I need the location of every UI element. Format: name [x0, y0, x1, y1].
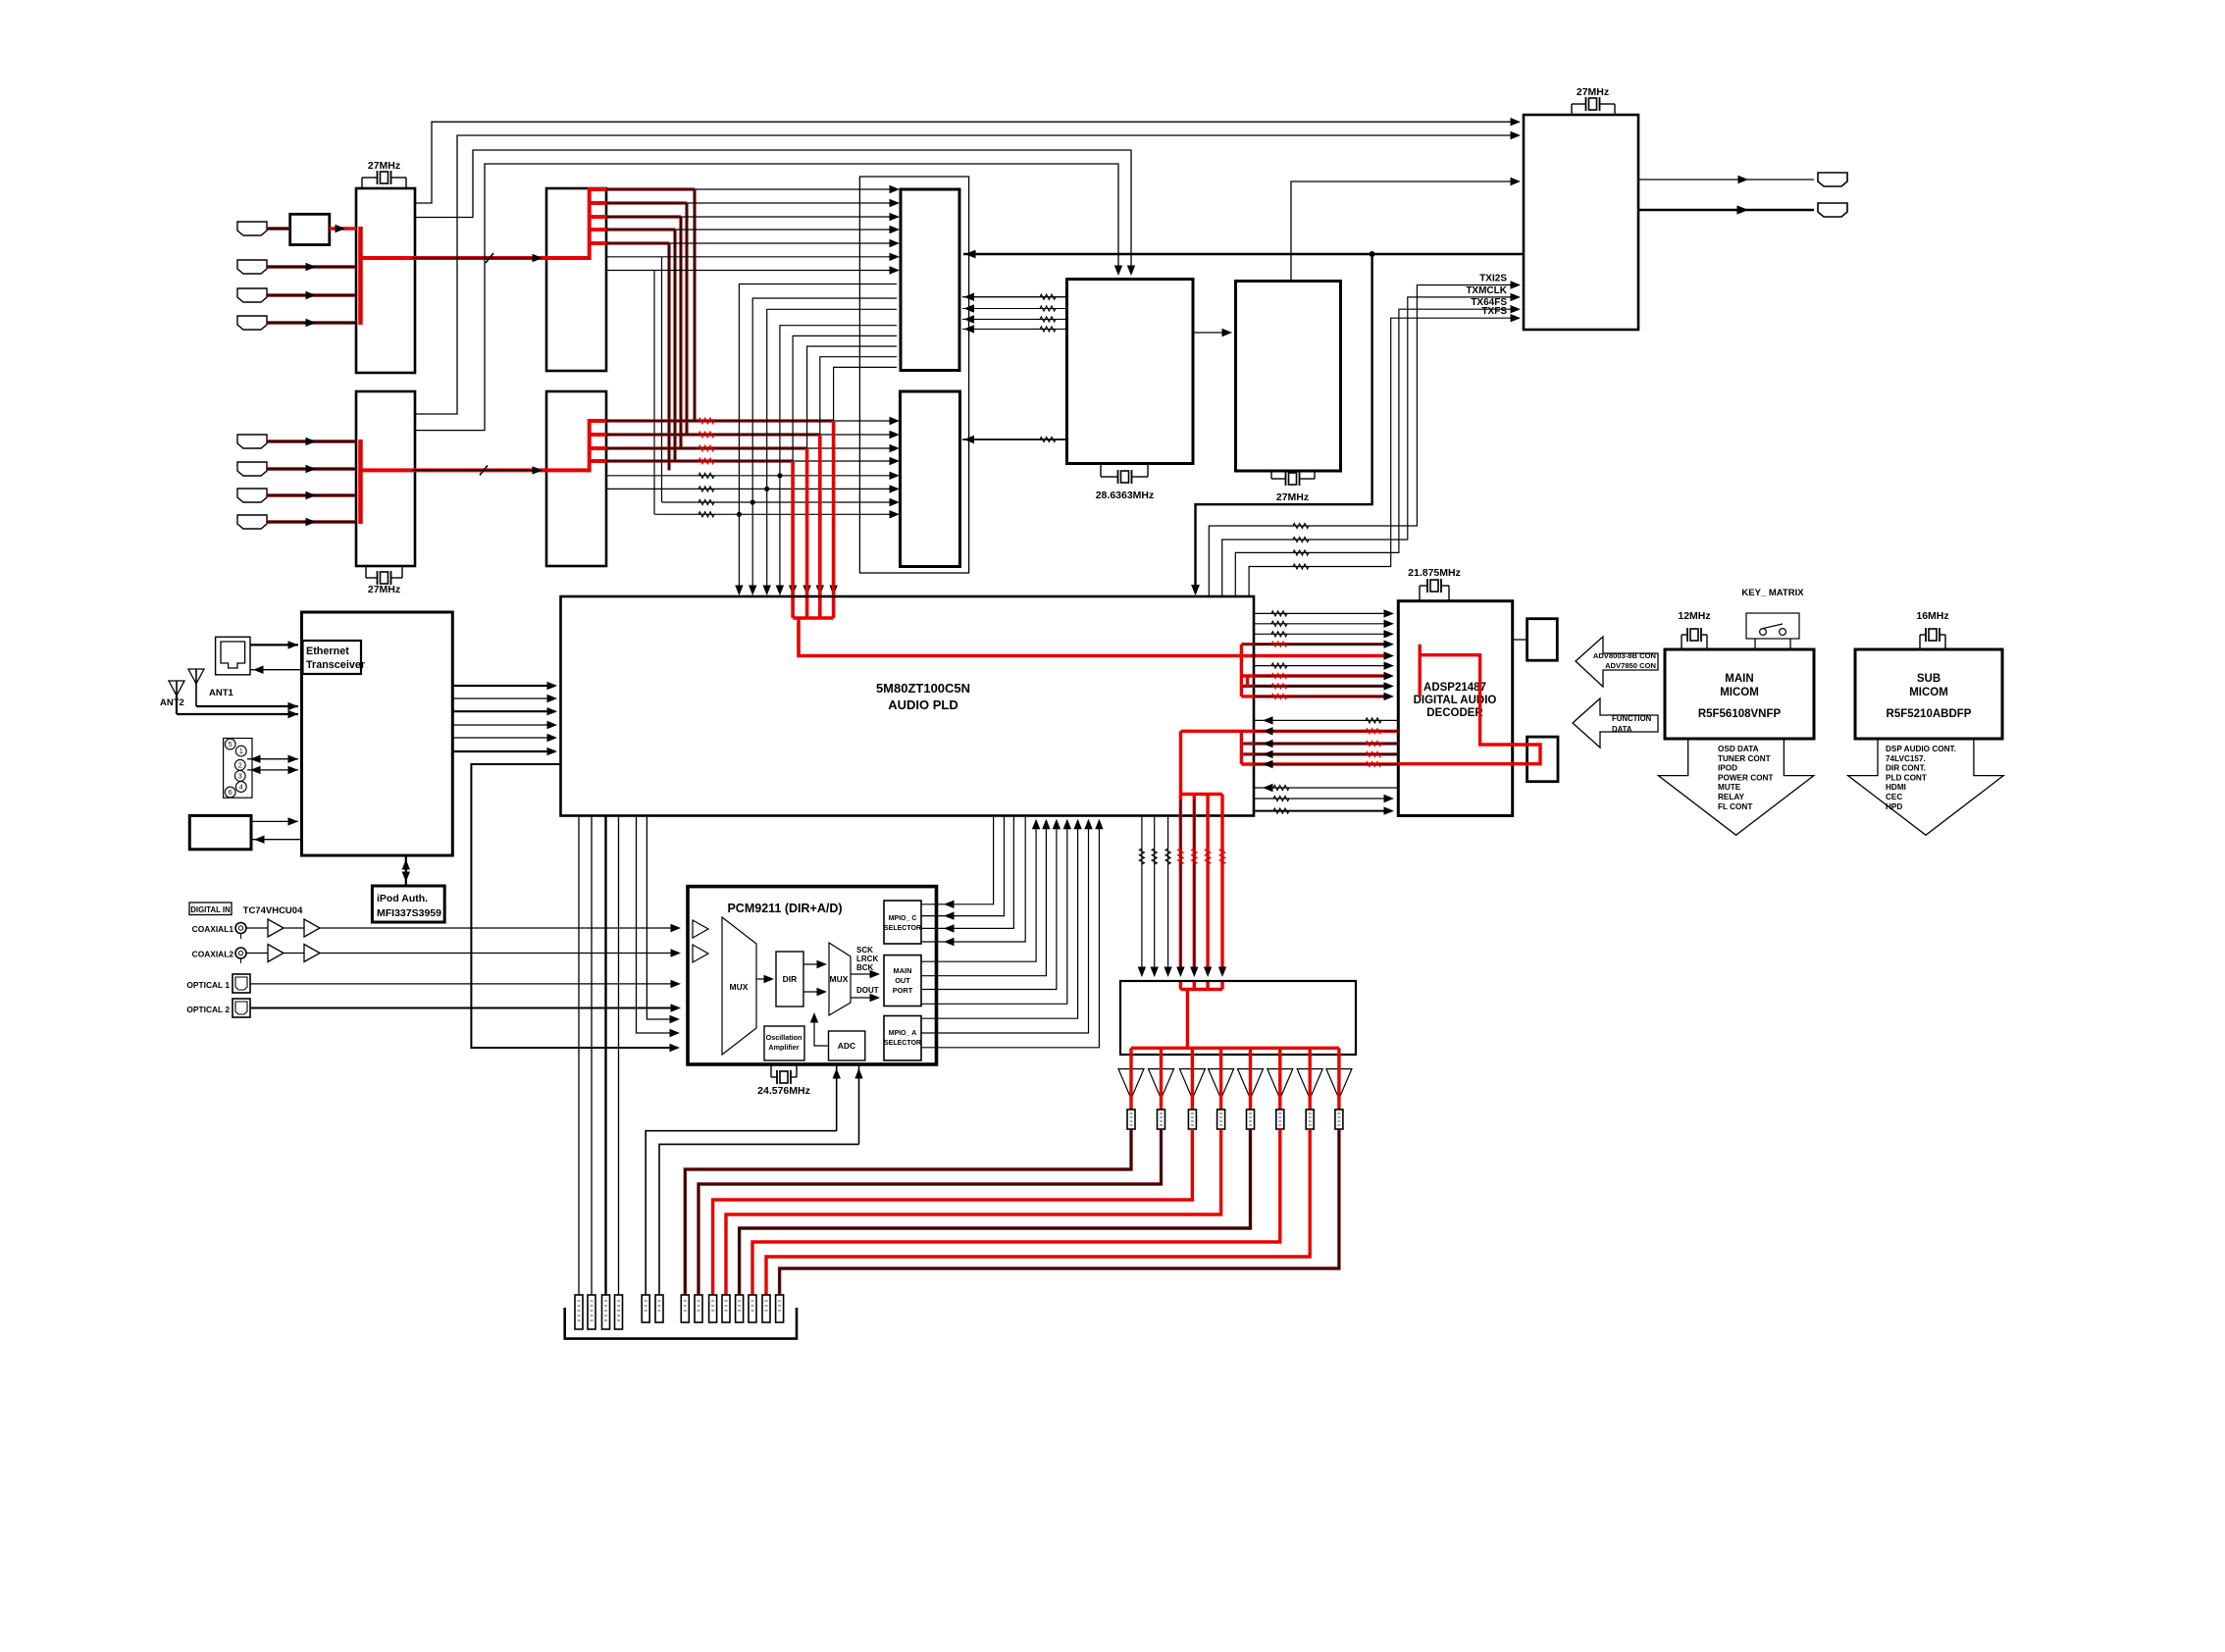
- red feed into PLD: [799, 618, 1385, 656]
- wire J6 to U2: [267, 467, 356, 470]
- svg-text:16MHz: 16MHz: [1916, 610, 1948, 622]
- wire COAXIAL2 to PCM: [246, 953, 268, 955]
- block U1 HDMI receiver 1: [356, 188, 415, 373]
- red output run 5: [740, 1129, 1251, 1295]
- wire ADC input L run: [646, 1131, 837, 1295]
- red net into PLD interior: [1181, 730, 1242, 733]
- wire PLD to ADSP row 3: [1255, 633, 1388, 635]
- block DIR in PCM9211: [776, 952, 803, 1007]
- arrow red feed to ADSP: [1384, 651, 1395, 659]
- wire PLD to bottom header 4: [618, 816, 620, 1296]
- wire MUX1 to DIR: [756, 978, 771, 980]
- pin 3 of J9: [234, 771, 245, 782]
- svg-text:LRCK: LRCK: [856, 955, 878, 963]
- pin 6 of J9: [225, 787, 235, 798]
- wire U11 to PLD 6: [452, 750, 555, 752]
- svg-text:SELECTOR: SELECTOR: [884, 925, 921, 932]
- wire U14 to U15: [1513, 639, 1527, 641]
- svg-text:FUNCTION: FUNCTION: [1612, 714, 1652, 723]
- analog out triangle 3: [1179, 1069, 1205, 1099]
- connector COAXIAL1: [235, 923, 246, 934]
- wire U5 row to PLD 1: [739, 284, 897, 594]
- svg-text:2: 2: [238, 762, 242, 769]
- wire PCM output to PLD 5: [921, 820, 1078, 1018]
- bottom header pin C1: [642, 1295, 649, 1322]
- wire row 2 to U5: [687, 202, 897, 204]
- red manifold bar: [1180, 793, 1222, 796]
- wire ADC to MUX2: [814, 1015, 829, 1046]
- outline arrow ADV CON: [1576, 637, 1658, 687]
- bottom bracket: [565, 1308, 797, 1339]
- wire ADC input R run: [659, 1144, 859, 1295]
- wire ADSP to PLD row 2: [1241, 730, 1398, 733]
- wire PLD to PCM route: [471, 764, 677, 1048]
- wire audio bus turn row 2: [606, 433, 820, 436]
- wire PCM output to PLD 3: [921, 820, 1057, 990]
- bottom header pin C2: [655, 1295, 663, 1322]
- red bus wire U2 to U4: [361, 468, 590, 472]
- svg-text:OPTICAL 2: OPTICAL 2: [186, 1005, 230, 1014]
- tab input connector J7: [237, 489, 267, 502]
- svg-text:74LVC157.: 74LVC157.: [1886, 754, 1926, 763]
- wire J1 to Z1 to U1 (TMDS): [267, 227, 290, 230]
- svg-text:TUNER CONT: TUNER CONT: [1718, 754, 1771, 763]
- svg-text:DIGITAL AUDIO: DIGITAL AUDIO: [1414, 695, 1497, 706]
- svg-text:DATA: DATA: [1612, 725, 1632, 734]
- svg-text:MICOM: MICOM: [1909, 687, 1948, 698]
- red comb inside U4: [588, 419, 592, 472]
- svg-text:KEY_ MATRIX: KEY_ MATRIX: [1741, 588, 1804, 598]
- svg-text:TXMCLK: TXMCLK: [1466, 285, 1507, 296]
- svg-text:ADSP21487: ADSP21487: [1423, 682, 1486, 694]
- wire PLD to DAC 3: [1167, 816, 1169, 974]
- wire J3 to U1: [267, 293, 356, 296]
- wire ADC input L: [836, 1064, 838, 1131]
- wire PLD to ADSP row 7: [1241, 674, 1388, 677]
- wire RJ45 to U11: [250, 644, 298, 645]
- wire PLD to bottom header 1: [578, 816, 580, 1296]
- bottom header pin D8: [776, 1295, 784, 1322]
- red output manifold in DAC: [1131, 1047, 1339, 1050]
- wire maroon video bus row 3: [606, 215, 681, 218]
- mux M2 in PCM9211: [829, 943, 851, 1015]
- svg-text:CEC: CEC: [1886, 793, 1902, 801]
- svg-text:COAXIAL1: COAXIAL1: [192, 924, 234, 934]
- svg-text:HPD: HPD: [1886, 802, 1902, 811]
- wire ANT1 to U11: [196, 705, 298, 707]
- wire maroon video bus row 5: [606, 241, 669, 244]
- svg-text:AUDIO PLD: AUDIO PLD: [888, 697, 958, 712]
- wire PLD to ADSP row 4: [1241, 643, 1388, 645]
- wire maroon video bus drop 1: [693, 189, 696, 421]
- junction dot 1: [777, 473, 782, 478]
- red feed down inside DAC: [1186, 990, 1189, 1049]
- svg-text:FL CONT: FL CONT: [1718, 802, 1752, 811]
- wire DIR to MUX2 b: [803, 991, 824, 993]
- pin connector P8: [1335, 1110, 1343, 1129]
- red output run 2: [699, 1129, 1162, 1295]
- block oscillation amplifier: [764, 1026, 804, 1060]
- wire PCM output to PLD 2: [921, 820, 1046, 976]
- crystal X3 28.6363MHz (below U7): [1100, 464, 1102, 478]
- bottom header pin D6: [749, 1295, 756, 1322]
- pin connector P5: [1247, 1110, 1255, 1129]
- wire PCM output to PLD 7: [921, 820, 1099, 1048]
- wire U1 to U7 clock a: [415, 150, 1131, 272]
- thick net drop to PLD: [1196, 254, 1372, 593]
- junction dot 2: [764, 487, 769, 491]
- svg-text:R5F5210ABDFP: R5F5210ABDFP: [1887, 708, 1972, 720]
- svg-text:27MHz: 27MHz: [1276, 491, 1309, 503]
- bottom header pin D3: [709, 1295, 717, 1322]
- crystal X2 27MHz (below U2): [365, 566, 367, 578]
- bottom header pin D2: [695, 1295, 702, 1322]
- wire PLD to PCM input b: [637, 816, 678, 1034]
- wire U11 to PLD 2: [452, 697, 555, 699]
- svg-text:MPIO_ C: MPIO_ C: [889, 915, 917, 922]
- crystal X7 21.875MHz (top of U14): [1419, 586, 1421, 601]
- analog out triangle 7: [1297, 1069, 1322, 1099]
- wire U7 to U5 row 2: [962, 308, 1067, 310]
- svg-text:OUT: OUT: [895, 976, 910, 985]
- red wire through triangle 4: [1219, 1048, 1222, 1110]
- bottom header pin D5: [736, 1295, 744, 1322]
- svg-text:1: 1: [239, 749, 243, 755]
- red wire through triangle 1: [1129, 1048, 1132, 1110]
- tab input connector J6: [237, 462, 267, 476]
- wire audio bus row 2 to U6: [820, 434, 897, 436]
- wire ADSP to PLD row 4: [1241, 752, 1398, 755]
- buffer gates COAXIAL1: [268, 919, 284, 937]
- pin 1 of J9: [235, 746, 246, 756]
- bottom header pin D4: [722, 1295, 730, 1322]
- wire U11 to J10: [251, 839, 302, 841]
- svg-text:6: 6: [229, 790, 233, 797]
- block U10 audio PLD 5M80ZT100C5N: [561, 596, 1255, 816]
- junction dot 3: [750, 499, 755, 504]
- red bus on U1 left edge: [358, 227, 363, 325]
- svg-text:27MHz: 27MHz: [368, 160, 400, 172]
- wire DIR to MUX2 a: [803, 963, 824, 965]
- svg-text:MUX: MUX: [730, 982, 749, 992]
- wire U3 row6 drop: [661, 257, 663, 502]
- wire U5 row to PLD 4: [780, 326, 897, 593]
- tab input connector J8: [237, 515, 267, 529]
- crystal X5 27MHz (top of U9): [1571, 104, 1573, 115]
- label box Ethernet Transceiver: [303, 641, 362, 674]
- wire PLD to MPIO_C 4: [947, 816, 1025, 943]
- wire U4 to U6 row5: [606, 475, 897, 477]
- svg-text:DSP AUDIO CONT.: DSP AUDIO CONT.: [1886, 745, 1956, 753]
- svg-text:SCK: SCK: [856, 946, 873, 955]
- wire PLD to ADSP bottom 3: [1255, 810, 1388, 812]
- wire OPTICAL2 to PCM: [250, 1007, 678, 1009]
- wire J4 to U1: [267, 321, 356, 324]
- wire PLD to PCM input a: [647, 816, 677, 1020]
- red output run 8: [780, 1129, 1339, 1295]
- svg-text:Transceiver: Transceiver: [306, 659, 366, 671]
- red output run 1: [685, 1129, 1131, 1295]
- svg-text:Oscillation: Oscillation: [766, 1033, 802, 1042]
- wire ADSP to PLD row 5: [1241, 762, 1398, 765]
- wire J2 to U1: [267, 265, 356, 268]
- red frame at PLD right upper: [1240, 645, 1243, 697]
- buffer B2 in PCM9211: [693, 945, 708, 962]
- crystal X4 27MHz (below U8): [1270, 471, 1272, 479]
- wire J7 to U2: [267, 493, 356, 496]
- wire maroon video bus drop 5: [667, 243, 670, 470]
- analog out triangle 5: [1238, 1069, 1264, 1099]
- red loop inside ADSP: [1418, 645, 1421, 697]
- svg-text:TXFS: TXFS: [1481, 306, 1507, 317]
- red wire drop to PLD 1: [832, 421, 836, 618]
- component J10 USB connector: [189, 815, 251, 849]
- red wire stub into DAC: [1206, 981, 1209, 990]
- wire maroon video bus row 2: [606, 201, 687, 204]
- wire TXFS PLD to U9: [1249, 318, 1518, 596]
- wire U7 to U6 row: [962, 439, 1067, 440]
- red wire through triangle 6: [1278, 1048, 1281, 1110]
- wire PLD to DAC 1: [1141, 816, 1143, 974]
- wire U11 to U12 bidirectional: [405, 855, 407, 886]
- red wire stub into DAC: [1179, 981, 1182, 990]
- block U18 MAIN MICOM: [1665, 649, 1814, 739]
- wire PLD to ADSP row 2: [1255, 623, 1388, 625]
- connector J9 pin header: [224, 739, 252, 799]
- pin 2 of J9: [234, 759, 245, 770]
- svg-text:5M80ZT100C5N: 5M80ZT100C5N: [876, 681, 970, 696]
- svg-text:IPOD: IPOD: [1718, 764, 1737, 773]
- wire maroon video bus drop 3: [679, 217, 682, 448]
- red wire through triangle 8: [1337, 1048, 1340, 1110]
- outer frame of video processor: [859, 177, 968, 573]
- svg-text:MPIO_ A: MPIO_ A: [889, 1030, 917, 1037]
- svg-text:DIGITAL IN: DIGITAL IN: [190, 905, 231, 914]
- block U7 video decoder: [1067, 280, 1194, 464]
- outline arrow below U19: [1848, 739, 2004, 835]
- svg-text:SUB: SUB: [1917, 673, 1940, 685]
- wire U5 row to PLD 7: [820, 357, 897, 593]
- wire U5 row to PLD 8: [834, 367, 897, 593]
- buffer B1 in PCM9211: [693, 920, 708, 938]
- wire U4 to U6 row7: [662, 501, 898, 503]
- svg-text:iPod Auth.: iPod Auth.: [377, 893, 428, 904]
- svg-text:OSD DATA: OSD DATA: [1718, 745, 1759, 753]
- svg-text:12MHz: 12MHz: [1678, 610, 1710, 622]
- red comb inside U3: [588, 187, 592, 260]
- component Z1 common-mode filter: [290, 214, 330, 244]
- bottom header pin B2: [588, 1295, 595, 1329]
- wire PLD to ADSP bottom 2: [1255, 798, 1388, 800]
- connector COAXIAL2: [235, 948, 246, 958]
- wire PLD to DAC 2: [1154, 816, 1156, 974]
- red wire through triangle 5: [1249, 1048, 1252, 1110]
- wire U5 row to PLD 3: [767, 309, 897, 593]
- red wire stub into DAC: [1193, 981, 1196, 990]
- wire PLD to ADSP row 9: [1241, 695, 1388, 697]
- bottom header pin B1: [575, 1295, 583, 1329]
- wire audio bus row 1 to U6: [834, 420, 897, 422]
- block ADC in PCM9211: [829, 1031, 865, 1060]
- red wire drop to PLD 3: [805, 448, 809, 618]
- svg-text:DIR CONT.: DIR CONT.: [1886, 764, 1926, 773]
- tab input connector J1: [237, 222, 267, 235]
- wire PLD to bottom header 3: [604, 816, 606, 1296]
- red wire through triangle 2: [1160, 1048, 1163, 1110]
- red comb bar above PLD: [793, 616, 834, 620]
- block U3 HDMI switch 1: [546, 188, 606, 371]
- svg-text:24.576MHz: 24.576MHz: [757, 1085, 810, 1097]
- wire U4 to U6 row6: [606, 488, 897, 490]
- wire U2 to U7 clock b: [415, 164, 1118, 431]
- wire U4 to U6 row8: [654, 513, 897, 515]
- mux M1 in PCM9211: [722, 917, 756, 1055]
- red wire to DAC 1: [1179, 795, 1182, 974]
- pin connector P3: [1188, 1110, 1196, 1129]
- wire J9 pin2 to U11: [247, 758, 298, 760]
- svg-text:OPTICAL 1: OPTICAL 1: [186, 980, 230, 990]
- wire audio bus row 3 to U6: [807, 447, 897, 449]
- block U5 video processor A: [901, 189, 959, 371]
- svg-text:TXI2S: TXI2S: [1479, 274, 1507, 284]
- svg-text:COAXIAL2: COAXIAL2: [192, 950, 234, 959]
- red output run 4: [726, 1129, 1221, 1295]
- tab input connector J2: [237, 260, 267, 274]
- svg-text:MAIN: MAIN: [1725, 673, 1753, 685]
- wire U11 to RJ45: [250, 669, 302, 671]
- wire PCM output to PLD 4: [921, 820, 1067, 1004]
- bottom header pin B3: [602, 1295, 610, 1329]
- connector OPTICAL2: [233, 999, 250, 1017]
- wire U7 to U5 row 4: [962, 328, 1067, 330]
- wire U2 to U9 row2: [415, 135, 1518, 414]
- wire maroon video bus row 4: [606, 228, 675, 231]
- wire row 3 to U5: [681, 216, 897, 218]
- bottom header pin D7: [762, 1295, 770, 1322]
- svg-text:MFI337S3959: MFI337S3959: [377, 907, 441, 919]
- svg-text:21.875MHz: 21.875MHz: [1408, 567, 1461, 579]
- wire audio bus turn row 3: [606, 446, 807, 449]
- wire audio bus turn row 1: [606, 419, 834, 422]
- wire TXMCLK PLD to U9: [1222, 297, 1518, 596]
- wire PLD to MPIO_C 2: [947, 816, 1005, 916]
- block U12 iPod Auth MFI337S3959: [372, 886, 444, 922]
- wire J5 to U2: [267, 439, 356, 442]
- pin connector P7: [1306, 1110, 1314, 1129]
- wire U7 to U8: [1193, 332, 1228, 334]
- svg-text:4: 4: [239, 785, 243, 792]
- wire J10 to U11: [251, 820, 298, 822]
- bottom header pin B4: [615, 1295, 623, 1329]
- wire ADSP to PLD row 3: [1241, 742, 1398, 745]
- wire TX64FS PLD to U9: [1235, 309, 1518, 596]
- pin 4 of J9: [235, 782, 246, 793]
- wire PLD to MPIO_C 3: [947, 816, 1013, 929]
- svg-text:MUX: MUX: [830, 974, 849, 984]
- svg-text:Ethernet: Ethernet: [306, 645, 349, 657]
- svg-text:POWER CONT: POWER CONT: [1718, 773, 1773, 782]
- pin connector P1: [1127, 1110, 1135, 1129]
- wire U11 to PLD 3: [452, 710, 555, 712]
- wire U7 to U5 row 3: [962, 318, 1067, 320]
- svg-text:DIR: DIR: [783, 974, 798, 984]
- wire row 1 to U5: [695, 188, 897, 190]
- crystal X8 12MHz (top of U18): [1681, 635, 1682, 649]
- wire PLD to ADSP row 6: [1255, 665, 1388, 667]
- connector OPTICAL1: [233, 974, 250, 993]
- junction dot 4: [737, 512, 742, 517]
- red wire drop to PLD 2: [818, 435, 822, 618]
- wire MUX2 to MAIN OUT PORT: [851, 973, 877, 975]
- block U11 ethernet/network module: [302, 612, 453, 855]
- block U15 memory: [1527, 619, 1558, 661]
- tab output connector J-TX1: [1818, 173, 1847, 186]
- block U4 HDMI switch 2: [546, 391, 606, 566]
- wire U11 to PLD 1: [452, 685, 555, 687]
- red frame at PLD right lower: [1240, 731, 1243, 764]
- svg-text:HDMI: HDMI: [1886, 783, 1906, 792]
- red wire through triangle 7: [1308, 1048, 1311, 1110]
- block MAIN OUT PORT: [884, 955, 921, 1007]
- block U16 memory: [1527, 737, 1558, 782]
- wire U3 row7 drop: [653, 271, 655, 515]
- block U8 video encoder: [1236, 282, 1341, 472]
- tab output connector J-TX2: [1818, 203, 1847, 217]
- wire ANT2 to U11: [177, 713, 298, 715]
- wire U5 row to PLD 5: [793, 336, 897, 593]
- block U17 8ch DAC buffer: [1120, 981, 1356, 1055]
- red wire to DAC 4: [1220, 795, 1223, 974]
- wire COAXIAL1 to PCM: [246, 927, 268, 929]
- analog out triangle 8: [1326, 1069, 1352, 1099]
- wire PLD to bottom header 2: [591, 816, 593, 1296]
- wire U5 row to PLD 2: [752, 298, 897, 593]
- tab input connector J5: [237, 435, 267, 448]
- analog out triangle 4: [1209, 1069, 1234, 1099]
- block MPIO_C SELECTOR: [884, 901, 921, 944]
- block U2 HDMI receiver 2: [356, 391, 415, 566]
- wire U9 output 2: [1638, 209, 1814, 211]
- wire maroon video bus drop 4: [673, 230, 676, 461]
- svg-text:MAIN: MAIN: [894, 966, 912, 975]
- red wire stub into DAC: [1220, 981, 1223, 990]
- wire U11 to PLD 5: [452, 737, 555, 739]
- svg-text:TC74VHCU04: TC74VHCU04: [243, 905, 303, 916]
- block U19 SUB MICOM: [1855, 649, 2002, 739]
- wire ADC input R: [858, 1064, 860, 1144]
- block U14 ADSP21487: [1398, 601, 1512, 816]
- pin 5 of J9: [225, 739, 235, 749]
- wire PLD to ADSP row 8: [1241, 685, 1388, 688]
- svg-text:ANT2: ANT2: [160, 697, 184, 708]
- wire U5 row to PLD 6: [807, 346, 897, 593]
- buffer gates COAXIAL2: [268, 945, 284, 962]
- wire U1 to U9 row1: [415, 122, 1518, 203]
- svg-text:5: 5: [229, 742, 233, 749]
- wire PLD to ADSP bottom 1: [1255, 787, 1398, 789]
- analog out triangle 2: [1149, 1069, 1174, 1099]
- wire OPTICAL1 to PCM: [250, 983, 678, 985]
- thick net above PLD: [963, 253, 1524, 255]
- red bus wire U1 to U3: [361, 256, 590, 260]
- svg-text:ADC: ADC: [838, 1041, 855, 1051]
- wire DOUT to MAIN OUT PORT: [851, 997, 877, 999]
- outline arrow below U18: [1658, 739, 1813, 835]
- tab input connector J4: [237, 316, 267, 330]
- svg-text:R5F56108VNFP: R5F56108VNFP: [1698, 708, 1782, 720]
- svg-text:RELAY: RELAY: [1718, 793, 1745, 801]
- block U9 HDMI transmitter: [1524, 115, 1638, 330]
